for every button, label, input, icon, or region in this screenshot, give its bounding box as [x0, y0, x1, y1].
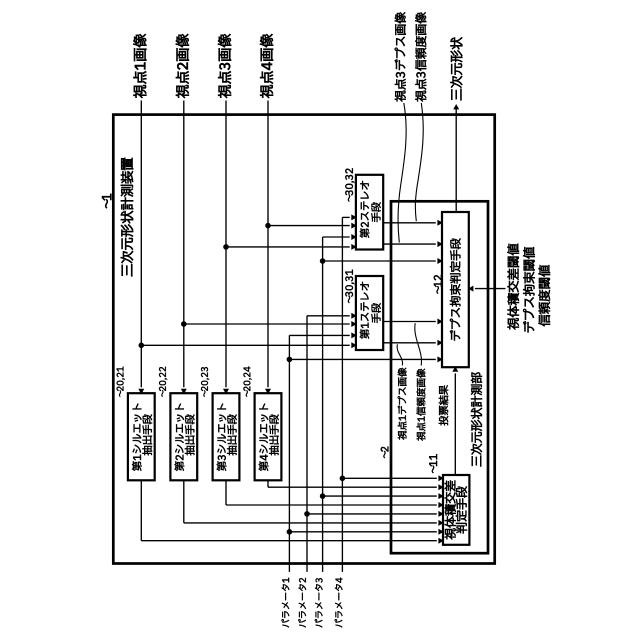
label パラメータ2	[298, 578, 306, 627]
label デプス拘束閾値	[523, 247, 535, 332]
label ref 12	[434, 275, 442, 294]
label box text 手段	[371, 202, 380, 222]
label box text 抽出手段	[185, 415, 195, 456]
label box text 抽出手段	[227, 415, 237, 456]
device outer box 1 三次元形状計測装置	[113, 115, 494, 564]
label box text 視体積交差	[445, 481, 456, 540]
label box text 抽出手段	[269, 415, 279, 456]
label パラメータ4	[335, 578, 343, 628]
wire 第1ステレオ手段 output 信頼度画像	[383, 340, 443, 346]
wire パラメータ2 vertical	[307, 313, 357, 572]
label box text 抽出手段	[142, 415, 152, 456]
box 23 第3シルエット抽出手段	[213, 393, 240, 480]
label 視点3信頼度画像	[415, 12, 426, 101]
wire 第4シルエット抽出手段 output to 視体積交差判定手段	[268, 480, 444, 490]
label パラメータ3	[315, 578, 323, 627]
label 三次元形状計測装置	[121, 158, 133, 276]
wire input 視点1画像 into silhouette box 1	[138, 101, 144, 395]
label box text 第2シルエット	[175, 404, 185, 471]
box 24 第4シルエット抽出手段	[255, 393, 282, 480]
label ref 20,23	[201, 367, 209, 397]
label 視点3デプス画像	[395, 12, 406, 101]
wire input 視点2画像 into silhouette box 2	[181, 101, 187, 395]
box 22 第2シルエット抽出手段	[170, 393, 197, 480]
label 視点1デプス画像	[398, 368, 407, 440]
label 投票結果	[439, 385, 448, 425]
label 視点1信頼度画像	[417, 369, 426, 441]
wire パラメータ4 vertical	[342, 214, 356, 572]
label 視点3画像	[218, 34, 231, 98]
label box text 第1ステレオ	[360, 282, 369, 339]
wire パラメータ3 branch to デプス拘束判定手段	[320, 258, 442, 264]
wire パラメータ3 vertical	[323, 234, 357, 572]
label 視点4画像	[260, 34, 273, 98]
wire パラメータ1 vertical	[289, 332, 356, 572]
wire 視点1画像 branch to 第1ステレオ手段	[139, 342, 357, 348]
leader 視点3デプス画像	[398, 103, 406, 243]
leader 視点3信頼度画像	[415, 103, 423, 221]
label 視点2画像	[176, 34, 189, 98]
wire input 視点3画像 into silhouette box 3	[223, 101, 229, 395]
label ref 30,31	[345, 270, 354, 303]
label box text 第4シルエット	[259, 404, 269, 471]
label ref 20,24	[244, 367, 252, 397]
label ref 1	[102, 194, 111, 208]
label box text 判定手段	[456, 487, 467, 534]
leader 視点1デプス画像	[397, 344, 402, 365]
label box text 手段	[371, 303, 380, 323]
wire 第3シルエット抽出手段 output to 視体積交差判定手段	[226, 480, 444, 508]
label box text 第2ステレオ	[360, 181, 369, 238]
label 三次元形状	[450, 37, 462, 100]
wire 第2シルエット抽出手段 output to 視体積交差判定手段	[184, 480, 444, 526]
label ref 20,21	[117, 367, 125, 397]
label box text デプス拘束判定手段	[450, 239, 461, 341]
label パラメータ1	[282, 578, 290, 628]
wire 視点3画像 branch to 第2ステレオ手段	[224, 244, 357, 250]
label ref 11	[429, 454, 437, 473]
wire 第1シルエット抽出手段 output to 視体積交差判定手段	[141, 480, 444, 543]
label ref 2	[381, 447, 388, 458]
measurement unit inner box 2 三次元形状計測部	[391, 201, 488, 553]
box 21 第1シルエット抽出手段	[128, 393, 155, 480]
label ref 20,22	[159, 367, 167, 397]
box 31 第1ステレオ手段	[356, 276, 383, 350]
label ref 30,32	[345, 168, 354, 201]
box 11 視体積交差判定手段	[443, 475, 469, 545]
wire パラメータ3 branch to 視体積交差判定手段	[320, 493, 443, 499]
wire パラメータ1 branch to 視体積交差判定手段	[287, 529, 444, 535]
wire 視点4画像 branch to 第2ステレオ手段	[266, 223, 357, 229]
label 三次元形状計測部	[471, 373, 482, 467]
wire パラメータ4 branch to 視体積交差判定手段	[340, 475, 444, 481]
wire input 視点4画像 into silhouette box 4	[265, 101, 271, 395]
wire 視点2画像 branch to 第1ステレオ手段	[182, 321, 357, 327]
wire パラメータ2 branch to 視体積交差判定手段	[305, 511, 444, 517]
wire output 三次元形状	[453, 104, 459, 212]
wire 第2ステレオ手段 output デプス画像	[383, 220, 443, 226]
wire 閾値 inputs into デプス拘束判定手段	[468, 286, 506, 292]
wire 投票結果 視体積交差判定手段 to デプス拘束判定手段	[452, 366, 458, 475]
label 信頼度閾値	[538, 265, 550, 326]
label 視点1画像	[133, 34, 146, 98]
label 視体積交差閾値	[507, 244, 519, 330]
box 32 第2ステレオ手段	[356, 175, 383, 250]
label box text 第1シルエット	[132, 404, 142, 471]
leader 視点1信頼度画像	[415, 323, 422, 365]
box 12 デプス拘束判定手段	[442, 212, 469, 367]
wire 第1ステレオ手段 output デプス画像	[383, 319, 443, 325]
label box text 第3シルエット	[217, 404, 227, 471]
wire 第2ステレオ手段 output 信頼度画像	[383, 241, 443, 247]
wire パラメータ1 branch to デプス拘束判定手段	[287, 356, 443, 362]
